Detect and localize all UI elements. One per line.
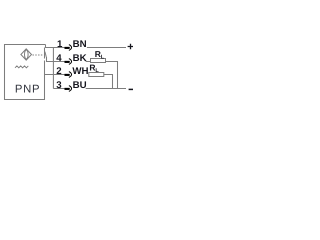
wire RL1 to minus rail [106, 62, 118, 89]
resistor RL2 box (WH load) [89, 73, 104, 77]
proximity sensor symbol (diamond with line) [21, 49, 32, 60]
label mask BU [70, 80, 86, 90]
svg-text:3: 3 [56, 80, 62, 91]
svg-text:4: 4 [56, 53, 62, 64]
sensor box (PNP sensor outline) [5, 45, 46, 100]
wire BU (row 4) [53, 88, 126, 90]
svg-text:1: 1 [57, 39, 63, 50]
label mask BN [70, 39, 87, 49]
svg-text:PNP: PNP [15, 84, 40, 96]
wire RL2 to minus rail [104, 75, 113, 89]
svg-text:BU: BU [73, 80, 87, 91]
switch hook [46, 57, 48, 62]
resistor RL1 box (BK load) [91, 59, 106, 63]
connector line [52, 48, 54, 89]
dashed actuator line [33, 54, 44, 56]
label mask BK [70, 53, 86, 63]
inductive field squiggle [15, 66, 28, 68]
minus terminal [129, 88, 133, 90]
svg-text:BN: BN [73, 39, 87, 50]
arrow row 1 [65, 45, 72, 51]
wire BN (row 1) [46, 45, 127, 48]
arrow row 4 [65, 86, 72, 92]
wire WH (row 3) [44, 74, 89, 76]
label mask WH [70, 66, 89, 76]
background [0, 0, 135, 135]
svg-text:2: 2 [56, 66, 61, 77]
svg-text:WH: WH [72, 66, 88, 77]
plus terminal [128, 44, 133, 49]
arrow row 3 [65, 72, 72, 78]
arrow row 2 [65, 59, 72, 65]
svg-text:BK: BK [73, 53, 87, 64]
wire BK (row 2) [46, 61, 91, 63]
switch arm [45, 52, 46, 57]
